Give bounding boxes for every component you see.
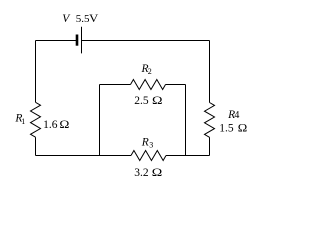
- svg-text:Ω: Ω: [152, 167, 163, 179]
- wire: left edge lower (R1 down to bottom-left corner): [35, 137, 37, 155]
- svg-text:V: V: [89, 13, 99, 25]
- wire: inner box top-left segment to R2: [100, 84, 131, 86]
- resistor R3 (horizontal zigzag): [131, 151, 166, 161]
- resistor R2 (horizontal zigzag): [131, 80, 166, 90]
- resistor R4 (vertical zigzag): [205, 103, 215, 138]
- wire: bottom right segment (R3 to bottom-right corner): [166, 155, 210, 157]
- wire: right edge lower (R4 down to bottom-right corner): [209, 137, 211, 155]
- svg-text:5.5: 5.5: [76, 13, 90, 25]
- svg-text:Ω: Ω: [152, 95, 163, 107]
- wire: inner box top-right segment from R2: [166, 84, 186, 86]
- wire: inner box right vertical (node B to bottom wire): [185, 85, 187, 156]
- svg-text:Ω: Ω: [59, 119, 69, 131]
- wire: left edge upper (top-left corner down to R1): [35, 41, 37, 103]
- battery V (thin long positive plate): [81, 27, 83, 54]
- wire: inner box left vertical (node A to bottom wire): [99, 85, 101, 156]
- svg-text:R: R: [141, 136, 149, 148]
- svg-text:Ω: Ω: [238, 123, 248, 135]
- svg-text:2: 2: [148, 67, 152, 76]
- wire: right edge upper (top-right corner down to R4): [209, 41, 211, 103]
- svg-text:3: 3: [149, 141, 153, 150]
- svg-text:1: 1: [21, 117, 25, 126]
- wire: top-left segment from left corner to battery: [36, 40, 77, 42]
- battery V (thick short negative plate): [76, 35, 79, 46]
- resistor R1 (vertical zigzag): [31, 102, 41, 137]
- svg-text:4: 4: [234, 110, 239, 121]
- wire: top-right segment from battery to right corner: [82, 40, 210, 42]
- wire: bottom left segment (bottom-left corner to R3): [36, 155, 132, 157]
- svg-text:1.6: 1.6: [43, 119, 58, 131]
- svg-text:1.5: 1.5: [219, 123, 234, 135]
- svg-text:3.2: 3.2: [134, 167, 149, 179]
- svg-text:2.5: 2.5: [134, 95, 149, 107]
